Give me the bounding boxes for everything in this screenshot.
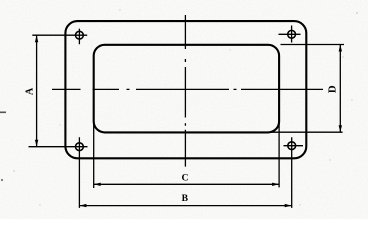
svg-text:C: C <box>181 172 188 183</box>
svg-text:D: D <box>327 85 339 93</box>
svg-text:B: B <box>182 193 189 204</box>
svg-text:A: A <box>25 87 36 95</box>
